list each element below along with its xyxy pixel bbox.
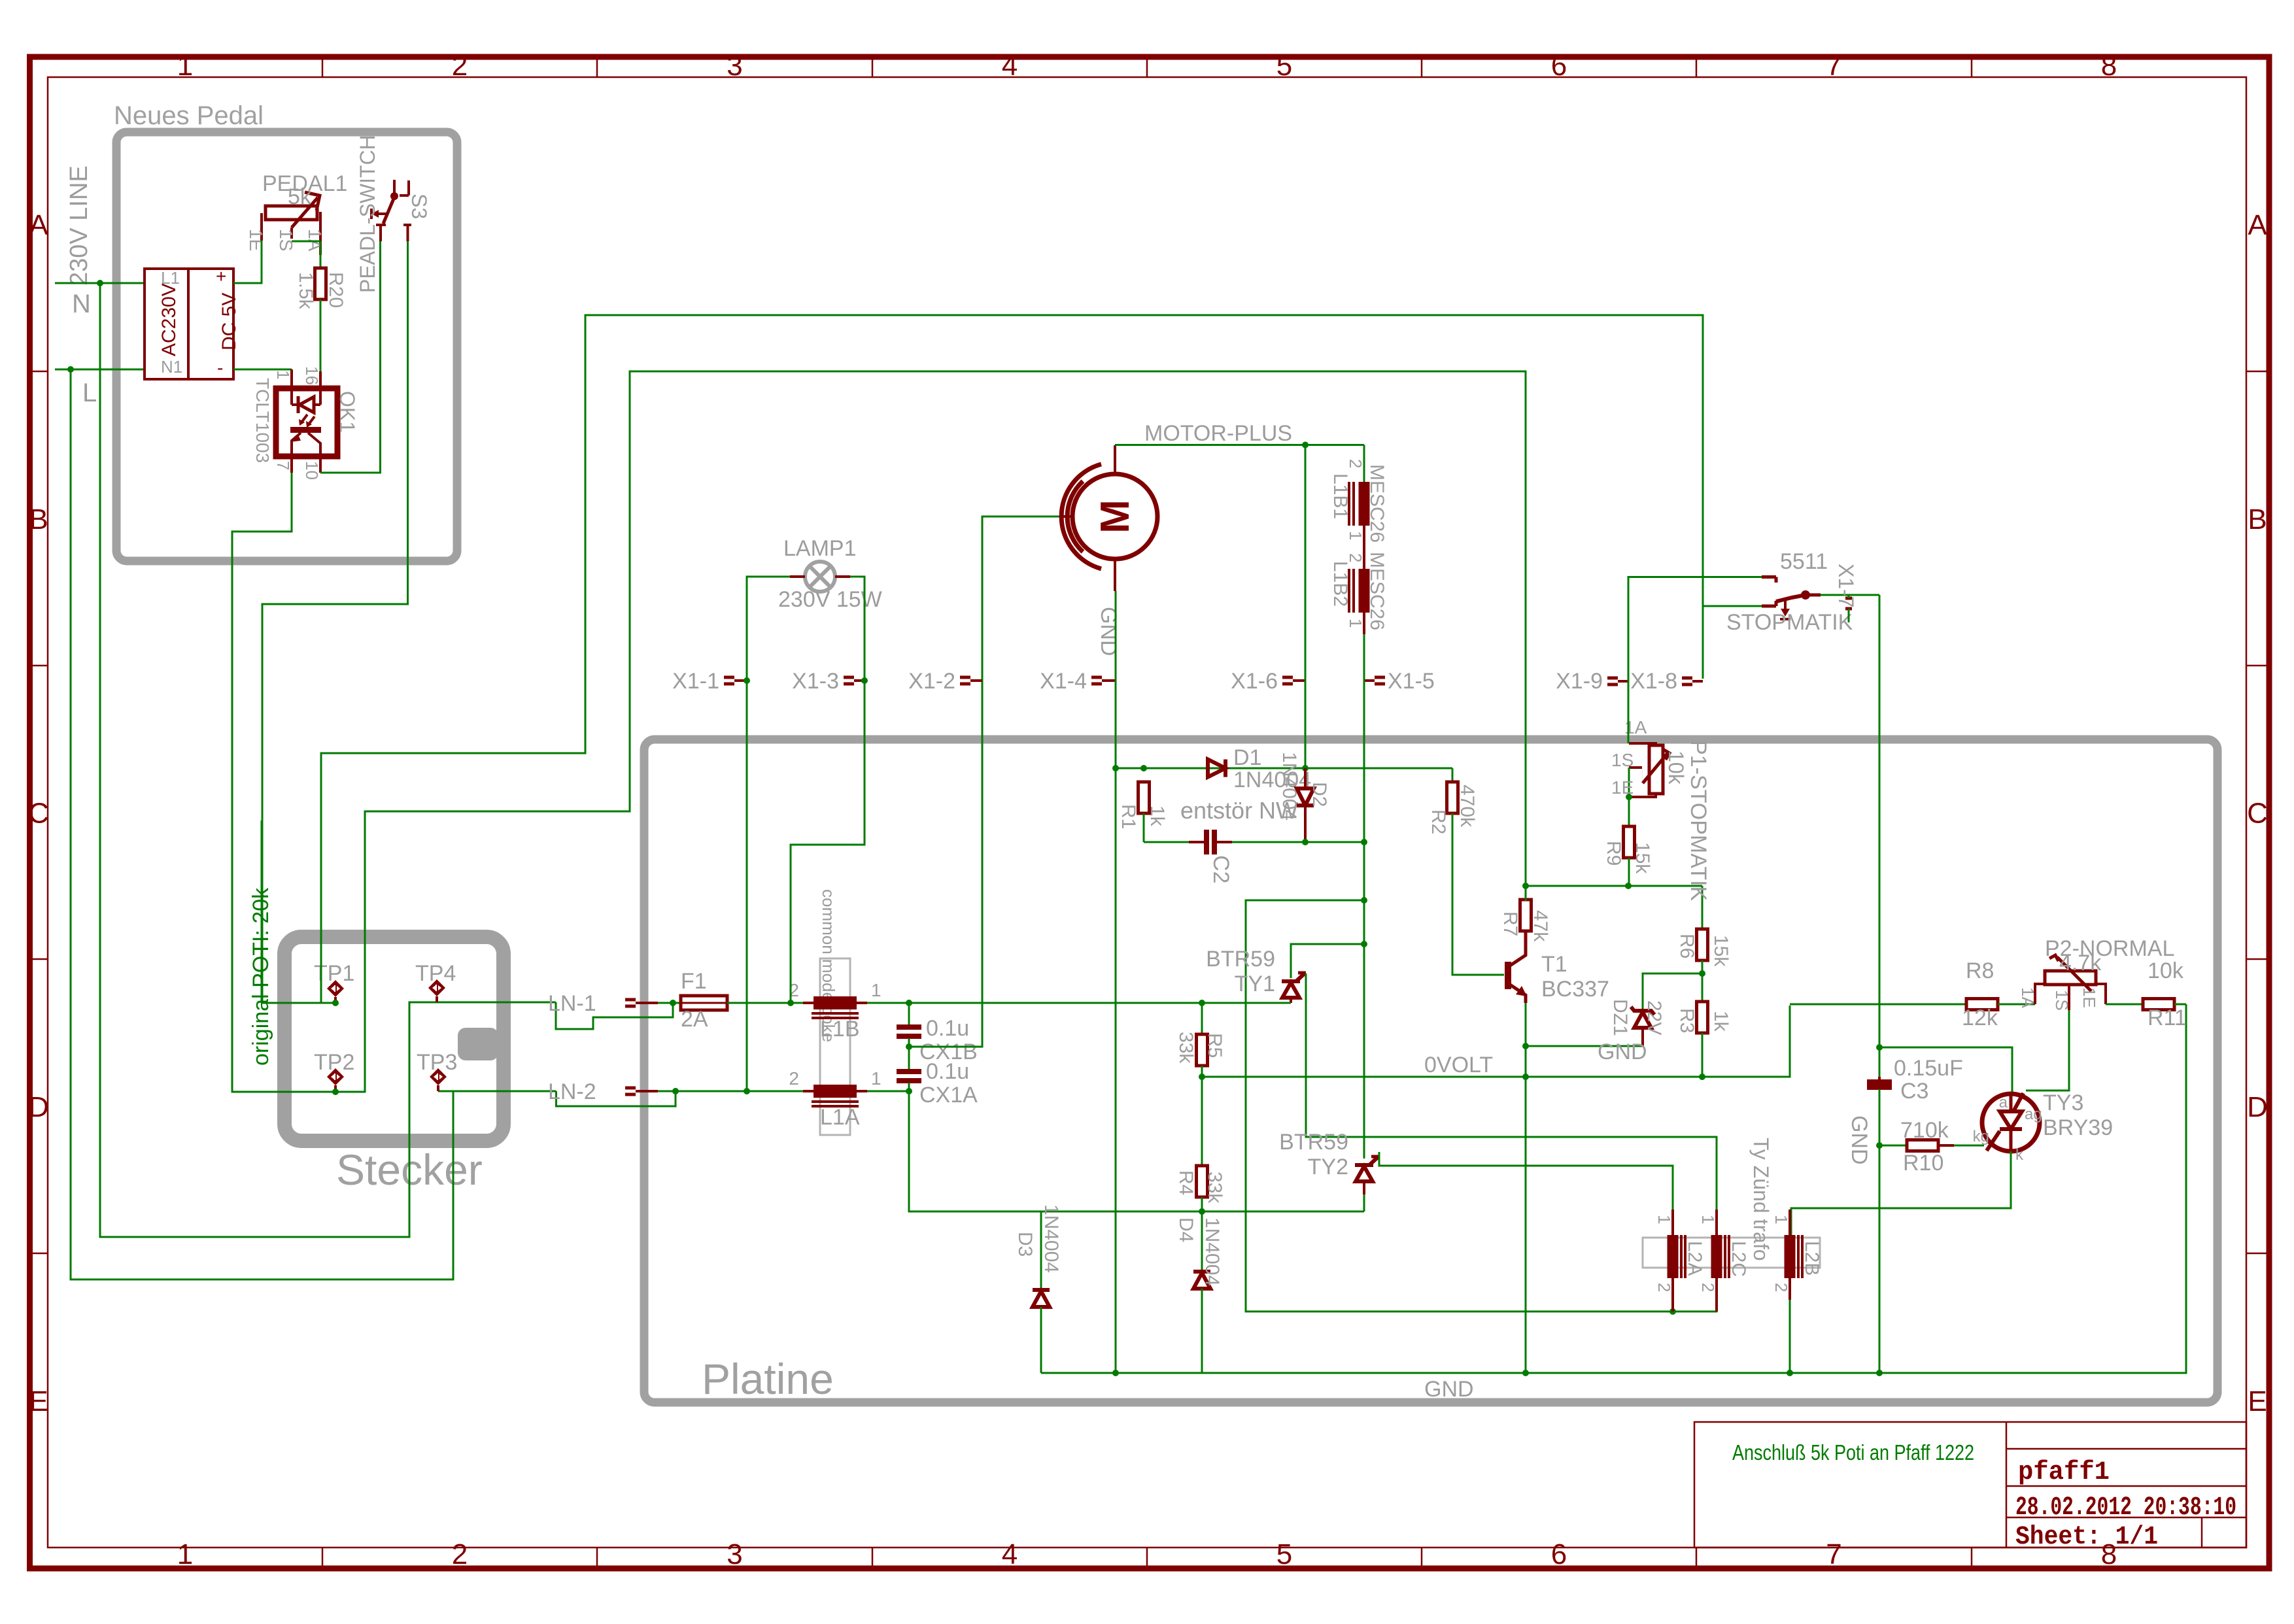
svg-text:R20: R20 [325,272,347,308]
capacitor C2 [1204,830,1209,854]
thyristor TY2 BTR59 [1355,1163,1373,1167]
Stecker box [284,937,504,1141]
svg-text:1k: 1k [1146,805,1168,827]
svg-text:10k: 10k [1664,751,1688,785]
wire L2C-2 corner [1673,1278,1717,1311]
transistor T1 BC337 [1505,962,1511,989]
svg-text:AC230V: AC230V [158,283,180,356]
wire TP1 riser to stopmatik [321,315,1703,1003]
junction R1 top [1140,765,1147,771]
svg-text:1: 1 [871,980,882,1000]
svg-text:TP3: TP3 [417,1050,457,1075]
svg-text:1N4004: 1N4004 [1040,1204,1062,1273]
svg-text:1: 1 [1654,1215,1674,1224]
wire C2 stub right [1217,841,1232,843]
wire TY2 bottom [1363,1194,1365,1211]
wire T1 emitter down [1525,1003,1527,1373]
resistor R4 33k [1197,1166,1208,1197]
svg-text:D: D [28,1091,49,1123]
wire R6 bottom [1702,960,1703,1002]
svg-text:1k: 1k [1710,1011,1732,1032]
wire P1 to R9 [1628,797,1630,828]
svg-text:5: 5 [1276,1538,1292,1570]
wire N down to TP4 row [100,283,556,1237]
svg-text:pfaff1: pfaff1 [2018,1458,2110,1487]
svg-text:E: E [29,1385,48,1417]
svg-text:3: 3 [727,50,742,82]
svg-text:10: 10 [302,461,322,480]
wire TP4 jog to LN-1 [556,1002,673,1029]
svg-text:1: 1 [1346,618,1365,628]
frame ticks [322,57,324,77]
wire main row to TY1 [909,1002,1291,1004]
wire 0VOLT rail [1202,1006,1790,1077]
junction CX1B top [906,1000,912,1006]
wire X1-8 riser [1703,606,1762,679]
svg-text:L1B1: L1B1 [1329,473,1351,519]
wire L1B2 down [1363,613,1365,634]
fuse F1 2A [681,996,727,1010]
svg-text:D3: D3 [1014,1232,1036,1257]
svg-text:X1-7: X1-7 [1834,564,1858,608]
svg-text:LN-2: LN-2 [548,1079,596,1104]
svg-text:15k: 15k [1710,935,1732,967]
potentiometer P2-NORMAL 4.7k [2045,971,2096,985]
testpoint TP4 [428,979,445,1002]
svg-text:MOTOR-PLUS: MOTOR-PLUS [1144,421,1292,446]
svg-text:GND: GND [1598,1040,1647,1064]
svg-text:P1-STOPMATIK: P1-STOPMATIK [1686,740,1711,902]
svg-text:E: E [2248,1385,2267,1417]
wire CX mid to X1-2 [909,516,1061,1047]
junction D2 top [1302,765,1309,771]
svg-text:4: 4 [1002,1538,1018,1570]
svg-text:GND: GND [1847,1115,1872,1165]
inductor L2B [1785,1235,1796,1278]
resistor R20 1.5k [315,268,326,299]
svg-text:R10: R10 [1903,1151,1943,1176]
inductor L1B2 MESC26 [1359,569,1370,613]
wire DZ1 branch [1643,973,1702,1011]
svg-text:MESC26: MESC26 [1366,552,1388,630]
svg-text:22V: 22V [1643,1000,1665,1035]
svg-text:GND: GND [1096,607,1121,656]
wire R3 bottom [1702,1033,1703,1077]
svg-text:R7: R7 [1499,911,1521,936]
svg-text:Ty Zünd trafo: Ty Zünd trafo [1749,1138,1773,1261]
resistor R1 1k [1138,782,1150,813]
wire TY2 gate to L2A [1379,1152,1673,1235]
optocoupler OK1 TCLT1003 [276,388,337,456]
wire TP2 riser to bias row [336,371,1526,1092]
switch 5511 STOPMATIK [1762,575,1776,579]
junction L2A-2 [1669,1308,1676,1315]
wire lamp left to X1-1 [747,577,790,1091]
svg-text:1.5k: 1.5k [295,272,317,310]
svg-text:710k: 710k [1900,1118,1949,1143]
wire motor GND down [1115,591,1117,1373]
svg-text:1: 1 [177,1538,193,1570]
wire GND rail [1041,1004,2186,1373]
svg-text:GND: GND [1424,1377,1474,1402]
svg-text:N1: N1 [161,357,182,377]
wire L down to TP3 row [71,369,453,1279]
svg-text:X1-8: X1-8 [1630,669,1677,694]
wire F1 to L1B [727,1002,803,1004]
svg-text:L2C: L2C [1728,1241,1749,1277]
svg-text:PEADL-SWITCH: PEADL-SWITCH [356,135,379,293]
svg-text:2: 2 [1654,1283,1674,1292]
wire OK1 pin10 to S3 left [320,241,381,473]
wire common to X1-7 [1821,594,1879,596]
junction X1-3 [861,677,868,684]
resistor R11 10k [2143,999,2174,1010]
svg-text:6: 6 [1551,50,1567,82]
svg-text:8: 8 [2101,50,2117,82]
junction LN-1 [670,1000,676,1006]
svg-text:R6: R6 [1676,934,1698,958]
svg-text:2: 2 [452,50,468,82]
svg-text:1A: 1A [305,229,325,252]
svg-text:L2B: L2B [1801,1241,1823,1276]
svg-text:4: 4 [1002,50,1018,82]
svg-text:12k: 12k [1962,1006,1998,1030]
svg-text:2: 2 [1698,1283,1718,1292]
svg-text:1: 1 [1346,531,1365,540]
svg-text:BTR59: BTR59 [1279,1130,1348,1155]
wire TY3 cathode to L2B [1791,1151,2011,1235]
svg-text:X1-2: X1-2 [908,669,955,694]
svg-text:0VOLT: 0VOLT [1424,1053,1493,1077]
junction R9 bottom [1625,883,1632,889]
junction TP1 [332,1000,339,1006]
svg-text:C2: C2 [1208,855,1233,883]
svg-text:7: 7 [1826,1538,1841,1570]
svg-text:L1B: L1B [820,1017,860,1041]
diode D3 1N4004 [1040,1211,1042,1290]
junction TY3 anode branch [1876,1044,1883,1051]
svg-text:kg: kg [1973,1128,1989,1145]
svg-text:2A: 2A [681,1007,708,1032]
svg-text:+: + [216,266,226,286]
svg-text:k: k [2015,1146,2024,1164]
wire R11 right [2174,1004,2186,1006]
wire TY1 gate to L2C [1306,973,1717,1235]
svg-text:BTR59: BTR59 [1206,947,1275,972]
wire LN-2 row [676,1091,803,1092]
resistor R10 710k [1907,1140,1938,1151]
capacitor C3 0.15uF [1867,1079,1892,1085]
wire S3 right to TP1 net [262,241,408,1003]
wire DC minus to OK1 pin1 [233,369,292,371]
svg-text:DZ1: DZ1 [1609,999,1631,1036]
svg-text:1: 1 [177,50,193,82]
wire lamp right to X1-3 [850,577,865,681]
wire TP3 row [438,1091,556,1092]
svg-text:D4: D4 [1175,1217,1197,1242]
svg-text:5k: 5k [288,184,312,209]
svg-text:TCLT1003: TCLT1003 [252,378,273,463]
inductor L1B1 MESC26 [1359,482,1370,526]
wire R5 bottom [1201,1066,1203,1077]
svg-text:R4: R4 [1175,1170,1197,1195]
svg-text:33k: 33k [1175,1032,1197,1064]
wire 2086 down1 [1363,842,1365,900]
wire C2 row right [1232,841,1305,843]
wire 1A to R20 [320,241,322,269]
junction motor gnd rail [1112,1370,1119,1376]
svg-text:15k: 15k [1632,842,1653,874]
svg-text:Platine: Platine [702,1355,834,1403]
svg-text:R5: R5 [1204,1033,1225,1058]
motor left brush pin [1061,515,1073,518]
inductor L2C [1711,1235,1722,1278]
capacitor CX1B 0.1u [897,1024,921,1030]
svg-text:R11: R11 [2148,1006,2187,1030]
svg-text:1: 1 [1698,1215,1718,1224]
svg-text:A: A [2248,209,2267,241]
junction R5 top [1199,1000,1205,1006]
junction X1-1 [744,677,750,684]
wire C2 stub left [1189,841,1204,843]
junction C2 D2 [1302,839,1309,845]
wire TY3 ag to P2 wiper [2026,1010,2069,1091]
wire D1 row corner to R2 [1452,768,1454,783]
junction LN-2 [672,1088,679,1094]
svg-text:TP4: TP4 [415,961,456,986]
wire bias row to R6 [1702,886,1703,930]
wire between MESC26 [1363,526,1365,569]
Stecker box notch [458,1028,498,1060]
svg-text:B: B [2248,503,2267,535]
svg-text:B: B [29,503,48,535]
wire CX mid [908,1038,910,1070]
wire C2 row left [1144,841,1189,843]
wire CX1A lower [908,1083,910,1091]
junction TY1 anode row [1361,941,1367,947]
svg-text:2: 2 [789,1068,799,1089]
svg-text:C: C [28,798,49,830]
svg-text:L1A: L1A [820,1105,860,1130]
svg-text:A: A [29,209,48,241]
svg-text:47k: 47k [1530,910,1551,942]
wire X1-9 down to P1 [1628,681,1630,743]
junction L2B rail [1787,1370,1793,1376]
wire PEDAL1 wiper to 1A [292,241,320,243]
junction R5 0VOLT [1199,1074,1205,1080]
wire R10 right [1938,1144,1954,1147]
junction C2 2086 [1361,839,1367,845]
svg-text:TP2: TP2 [314,1050,354,1075]
junction motor gnd D1 row [1112,765,1119,771]
svg-text:7: 7 [273,461,293,470]
wire R20 to OK1 pin16 [320,299,322,389]
svg-text:D1: D1 [1233,745,1261,770]
junction R7 top [1522,883,1529,889]
svg-text:D2: D2 [1309,782,1330,807]
svg-text:M: M [1093,499,1138,533]
svg-text:L: L [82,379,97,407]
svg-text:F1: F1 [681,969,707,994]
resistor R7 47k [1520,900,1532,931]
inductor L1B [813,996,857,1009]
svg-text:X1-6: X1-6 [1231,669,1278,694]
junction R4 D4 [1199,1208,1205,1215]
wire R7 top [1525,886,1527,901]
svg-text:1S: 1S [276,229,296,251]
thyristor TY1 BTR59 [1282,979,1300,983]
svg-text:230V LINE: 230V LINE [65,165,93,286]
junction CX mid [906,1043,912,1050]
svg-text:33k: 33k [1204,1172,1225,1204]
wire L1B to CX1B [867,1002,909,1004]
wire P2 1E to R11 [2106,1004,2143,1006]
wire R5 to R4 [1201,1077,1203,1167]
wire X1-7 net down [1879,595,1881,1077]
wire C3 bottom [1879,1089,1881,1373]
wire R8 right to P2 [1998,1004,2035,1006]
svg-text:4.7k: 4.7k [2059,951,2102,975]
svg-text:S3: S3 [407,194,431,219]
zener DZ1 22V [1631,1007,1654,1015]
svg-text:1: 1 [871,1068,882,1089]
junction R10 branch [1876,1142,1883,1149]
wire 1377 row to trafo [1246,900,1673,1311]
svg-text:C3: C3 [1900,1079,1928,1104]
resistor R5 33k [1197,1034,1208,1066]
svg-text:1N4004: 1N4004 [1201,1217,1223,1286]
svg-text:TY3: TY3 [2043,1091,2083,1115]
svg-text:ag: ag [2025,1106,2042,1123]
junction MOTOR-PLUS X1-6 [1302,442,1309,448]
svg-text:L2A: L2A [1684,1241,1705,1276]
svg-text:5: 5 [1276,50,1292,82]
svg-text:R9: R9 [1603,841,1624,866]
svg-text:X1-3: X1-3 [792,669,839,694]
svg-text:-: - [217,358,223,378]
switch S3 PEADL-SWITCH [393,180,396,195]
junction L feed [67,366,74,373]
wire X1-6 column [1305,445,1307,769]
diode D1 1N4004 [1208,760,1225,777]
svg-text:1A: 1A [2018,987,2038,1008]
diode D4 1N4004 [1201,1211,1203,1272]
junction C3 rail [1876,1370,1883,1376]
wire R5 top [1201,1003,1203,1036]
svg-text:28.02.2012 20:38:10: 28.02.2012 20:38:10 [2015,1493,2236,1523]
svg-text:MESC26: MESC26 [1366,464,1388,543]
Neues Pedal box [116,132,457,561]
wire R1 bottom [1143,813,1145,842]
svg-text:230V 15W: 230V 15W [778,587,882,612]
svg-text:L1B2: L1B2 [1329,561,1351,607]
potentiometer P1-STOPMATIK 10k [1629,743,1656,747]
svg-text:2: 2 [1346,459,1365,468]
svg-text:N: N [72,290,91,318]
svg-text:1: 1 [1772,1215,1791,1224]
diode D2 1N4004 [1304,768,1307,788]
trafo outline box [1643,1238,1820,1268]
wire LN-1 to F1 [673,1002,681,1004]
svg-text:R8: R8 [1966,958,1994,983]
svg-text:STOPMATIK: STOPMATIK [1726,610,1853,635]
svg-text:R1: R1 [1118,804,1139,829]
lamp LAMP1 230V 15W [805,562,835,592]
resistor R6 15k [1697,929,1708,960]
wire R8 left from 0VOLT [1790,1004,1966,1006]
testpoint TP3 [430,1068,447,1091]
wire X1-3 to LN-1 row [791,681,865,1003]
thyristor TY3 BRY39 [1982,1094,2040,1151]
junction R3 0VOLT [1699,1074,1705,1080]
wire bias row [1526,885,1702,887]
svg-text:1: 1 [273,370,293,379]
testpoint TP2 [327,1068,344,1091]
svg-text:470k: 470k [1456,785,1478,828]
wire N feed [55,282,145,284]
wire L feed [55,369,145,371]
wire 2086 down2 [1363,900,1365,944]
wire DC plus to PEDAL1 1E [233,241,262,283]
svg-text:0.1u: 0.1u [926,1016,969,1041]
svg-text:16: 16 [302,366,322,385]
connector pin LN-2 [625,1087,636,1090]
wire TY1 anode row [1291,944,1364,978]
svg-text:TY2: TY2 [1308,1155,1348,1179]
resistor R8 12k [1966,999,1998,1010]
wire D row [1041,1211,1364,1213]
Platine box [644,739,2217,1402]
svg-text:10k: 10k [2148,958,2184,983]
junction X1-1 riser LN-2 row [744,1088,750,1094]
wire R4 bottom [1201,1197,1203,1211]
capacitor CX1A 0.1u [897,1069,921,1074]
svg-text:Sheet: 1/1: Sheet: 1/1 [2015,1523,2158,1552]
wire MOTOR-PLUS corner [1363,445,1365,482]
svg-text:X1-9: X1-9 [1556,669,1603,694]
svg-text:a: a [1999,1094,2008,1111]
wire R2 to T1 base [1452,813,1504,975]
svg-text:OK1: OK1 [335,391,359,433]
svg-text:CX1A: CX1A [919,1083,978,1108]
junction X1-3 riser LN-1 row [787,1000,794,1006]
svg-text:1E: 1E [1611,777,1634,798]
wire DZ1 to emitter [1526,1045,1643,1047]
svg-text:BC337: BC337 [1541,977,1609,1002]
inductor L2A [1668,1235,1679,1278]
svg-text:Neues Pedal: Neues Pedal [114,101,264,130]
wire original POTI to TP1 [261,820,263,1003]
svg-text:LN-1: LN-1 [548,991,596,1016]
junction T1 emitter GND wire [1522,1043,1529,1049]
junction 2086 1377 [1361,897,1367,904]
svg-text:DC 5V: DC 5V [218,293,240,350]
resistor R3 1k [1697,1002,1708,1033]
junction T1 emitter rail [1522,1370,1529,1376]
svg-text:T1: T1 [1541,952,1567,977]
svg-text:0.1u: 0.1u [926,1059,969,1084]
svg-text:BRY39: BRY39 [2043,1115,2113,1140]
svg-text:1S: 1S [2052,990,2072,1011]
svg-text:6: 6 [1551,1538,1567,1570]
svg-text:X1-4: X1-4 [1040,669,1087,694]
testpoint TP1 [327,980,344,1003]
svg-text:TY1: TY1 [1235,972,1275,996]
connector pin LN-1 [625,998,636,1002]
junction N feed [97,280,103,286]
potentiometer PEDAL1 5k [265,206,317,220]
svg-text:1S: 1S [1611,750,1634,770]
